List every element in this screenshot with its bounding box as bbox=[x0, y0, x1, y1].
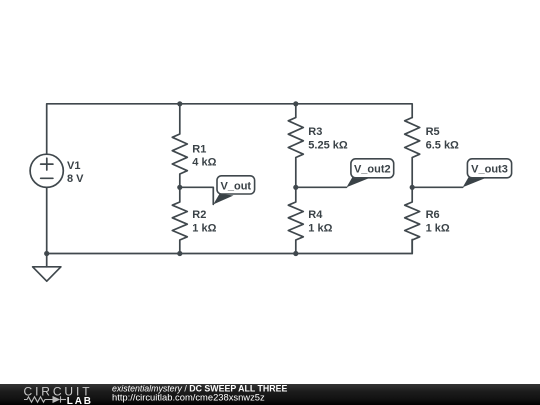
logo resistor-diode symbol bbox=[24, 396, 66, 402]
svg-text:LAB: LAB bbox=[67, 396, 93, 405]
ground bbox=[46, 254, 48, 267]
resistor R6 bbox=[405, 187, 420, 253]
node dot mid R1-R2 bbox=[177, 185, 182, 190]
logo diode triangle bbox=[53, 396, 61, 403]
wire top rail bbox=[47, 104, 413, 154]
wire to V_out flag bbox=[180, 187, 214, 204]
flag V_out bbox=[213, 176, 254, 205]
svg-text:http://circuitlab.com/cme238xs: http://circuitlab.com/cme238xsnwz5z bbox=[112, 392, 265, 403]
wire bottom rail bbox=[47, 187, 413, 253]
node dot bottom ground bbox=[44, 251, 49, 256]
footer bar bbox=[0, 384, 540, 405]
node dot top R3 bbox=[293, 101, 298, 106]
node dot bottom R4 bbox=[293, 251, 298, 256]
flag V_out2 bbox=[347, 159, 394, 188]
node dot bottom R2 bbox=[177, 251, 182, 256]
node dot top R1 bbox=[177, 101, 182, 106]
flag V_out3 bbox=[463, 159, 512, 188]
resistor R4 bbox=[288, 187, 303, 253]
wire to V_out3 flag bbox=[412, 186, 463, 188]
node dot mid R5-R6 bbox=[410, 185, 415, 190]
voltage source V1 bbox=[30, 154, 63, 187]
resistor R1 bbox=[172, 104, 187, 188]
resistor R2 bbox=[172, 187, 187, 253]
wire to V_out2 flag bbox=[296, 186, 347, 188]
resistor R5 bbox=[405, 118, 420, 188]
node dot mid R3-R4 bbox=[293, 185, 298, 190]
resistor R3 bbox=[288, 104, 303, 188]
